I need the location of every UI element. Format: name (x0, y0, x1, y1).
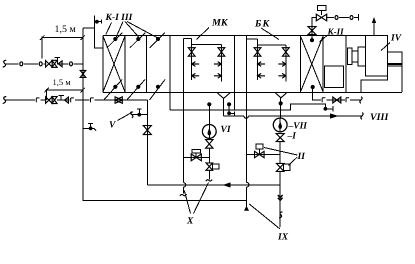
bypass branch VI (183, 156, 209, 158)
MK basket top notch (183, 38, 191, 40)
bypass end break over header (206, 180, 212, 182)
hand valve stem on oxygen line (56, 58, 58, 64)
machine IV: outlet duct (361, 76, 388, 92)
MK basket feed pipe (long vertical with hop over drain line) (182, 39, 184, 183)
K-I top nozzle dots (113, 37, 117, 41)
gate valve on gas line (46, 97, 53, 103)
line letter о (349, 14, 354, 20)
pump VII discharge (279, 171, 281, 227)
BK basket right column (285, 45, 287, 82)
hand valve stem on gas line (60, 96, 62, 100)
break at drain end (360, 97, 362, 103)
suction header line A (170, 104, 325, 110)
K-I bottom nozzle slashes (104, 80, 123, 101)
oxygen line to K-II motor valve (327, 17, 359, 19)
line letter г (89, 97, 94, 104)
K-II feed valve (308, 27, 316, 35)
MK basket left column (191, 39, 193, 81)
pump VII suction with junction dot (280, 98, 282, 118)
vent sampling point (95, 20, 99, 24)
pump VI (202, 124, 216, 138)
gas line left (3, 97, 7, 104)
svg-text:VI: VI (221, 125, 231, 135)
line letter о (19, 61, 24, 67)
K-II feed dot (310, 38, 314, 42)
drain valve (333, 97, 341, 103)
K-II bottom drain line (313, 87, 361, 100)
svg-text:–I: –I (287, 132, 297, 142)
line letter г (35, 97, 40, 104)
column K-I divider 1 (124, 36, 126, 93)
flow arrow up at IX tie-in (244, 206, 249, 211)
leader K-I to box corner (106, 23, 112, 35)
BK basket left spray arrows (258, 62, 266, 67)
MK basket right column (220, 45, 222, 82)
flow arrow left on drain header (223, 182, 231, 187)
column K-I divider 2 (146, 36, 148, 93)
valve on riser (80, 70, 86, 77)
vent to atmosphere arrow (373, 20, 375, 36)
line B / stream VIII (224, 115, 244, 117)
K-I drain pipe (146, 100, 148, 185)
BK basket top notch (247, 38, 258, 40)
valve on K-I drain (143, 126, 151, 135)
pump VII (273, 118, 287, 132)
valve under pump VI (206, 140, 213, 149)
BK right wall shared with K-II (299, 36, 301, 93)
BK basket right valve (282, 48, 289, 57)
svg-text:VIII: VIII (370, 112, 389, 123)
sampling stub near MK (227, 102, 231, 106)
gate valve on oxygen line (46, 61, 53, 67)
line letter г (345, 97, 350, 104)
MK left wall (shared with K-I) extending to suction header (169, 36, 171, 111)
flow arrow right on VIII (330, 113, 339, 118)
BK basket top (258, 44, 286, 46)
K-II column X packing (300, 36, 323, 92)
svg-text:–VII: –VII (288, 122, 308, 132)
break on discharge (279, 212, 283, 218)
svg-text:БК: БК (254, 18, 271, 29)
oxygen supply line top left (3, 60, 7, 67)
machine IV: main body (365, 36, 387, 77)
main riser x=83 (82, 28, 84, 199)
svg-text:II: II (297, 152, 306, 162)
column K-I X packing (103, 36, 125, 92)
column K-I left wall (102, 36, 104, 93)
line letter о (38, 61, 43, 67)
MK right wall extending to suction header (234, 36, 236, 111)
line letter г (321, 97, 326, 104)
svg-text:1,5 м: 1,5 м (55, 24, 77, 35)
motor valve on VII bypass (255, 151, 265, 157)
seat triangle on gas line (65, 97, 69, 103)
flow arrows down (278, 195, 283, 198)
check valve on gas line (52, 97, 57, 104)
BK basket right spray arrows (278, 62, 286, 67)
MK basket feed end break bar (180, 194, 187, 196)
funnel outlet pipe to line B (223, 98, 225, 116)
svg-text:IV: IV (390, 34, 402, 44)
line letter г (70, 97, 75, 104)
control valve VI (206, 163, 213, 170)
svg-text:Х: Х (186, 217, 194, 227)
leaders III to nozzles (116, 22, 123, 38)
motor valve on VI bypass (191, 154, 201, 161)
BK bottom funnel (276, 93, 287, 98)
BK basket left column (257, 39, 259, 80)
svg-text:1,5 м: 1,5 м (53, 77, 72, 87)
svg-text:V: V (109, 121, 116, 131)
K-II feed pipe from top (312, 18, 316, 41)
gate valve under K-I on gas line (115, 97, 122, 103)
K-I bottom nozzle dots (113, 85, 117, 89)
drain header to pump VII discharge (147, 184, 280, 186)
svg-text:МК: МК (211, 18, 229, 29)
BK left wall / feed pipe (hop over line y=185) (246, 36, 248, 183)
MK basket top (192, 44, 222, 46)
top header line of apparatus row (103, 35, 387, 37)
svg-text:К-I III: К-I III (105, 13, 133, 23)
valve I under pump VII (276, 134, 284, 142)
sampling stub V (132, 114, 148, 116)
pump VI suction dot and stem (207, 102, 211, 106)
break before VIII label (361, 113, 363, 120)
bottom line of apparatus row (103, 92, 402, 94)
bypass branch VII (247, 154, 281, 156)
MK basket right valve (218, 48, 225, 57)
MK bottom funnel (217, 93, 230, 98)
line letter о (334, 14, 339, 20)
K-II bottom dot (311, 85, 315, 89)
machine IV: shaft couplings (348, 48, 352, 64)
bottom return line from riser (83, 199, 247, 200)
K-I top nozzle slashes (107, 33, 122, 48)
machine IV: motor block (345, 36, 347, 93)
control valve VII (276, 163, 284, 171)
MK basket left spray arrows (192, 62, 200, 67)
MK basket left valve (188, 48, 195, 57)
riser top connector (83, 27, 95, 29)
svg-text:IX: IX (277, 233, 289, 243)
MK basket right spray arrows (214, 62, 222, 67)
K-II right wall (322, 36, 324, 93)
machine IV: discharge nozzle (387, 52, 402, 64)
line letter о (68, 61, 73, 67)
motor valve on K-II feed (316, 14, 326, 21)
drain cock on riser (83, 127, 94, 129)
seat triangle on oxygen line (58, 61, 62, 67)
check valve on oxygen line (52, 60, 57, 67)
K-I vent line (95, 15, 103, 48)
svg-text:К-II: К-II (327, 27, 345, 37)
BK basket left valve (254, 48, 261, 57)
